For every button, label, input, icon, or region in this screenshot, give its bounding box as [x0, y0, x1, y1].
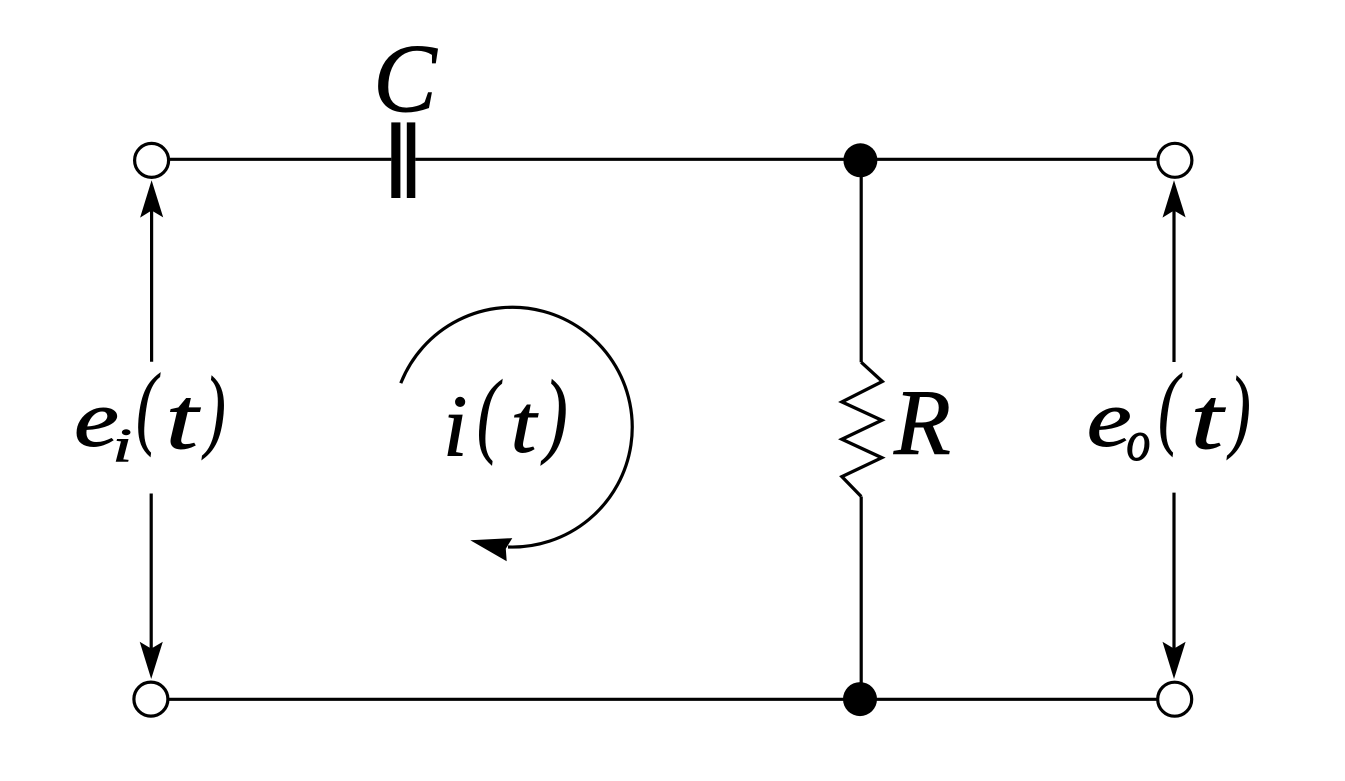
label e_i(t): [74, 357, 226, 472]
svg-text:t: t: [1191, 370, 1226, 467]
resistor R: [842, 362, 882, 496]
wire node A to resistor R: [860, 170, 863, 362]
svg-text:R: R: [893, 372, 951, 475]
svg-text:o: o: [1126, 410, 1150, 472]
wire node B to bottom-right terminal: [860, 698, 1157, 701]
wire bottom-left terminal to node B: [169, 698, 861, 701]
label C: [373, 24, 437, 132]
svg-text:e: e: [1087, 375, 1132, 463]
svg-text:t: t: [511, 378, 539, 470]
arrow e_i down (left input voltage arrow, lower): [140, 494, 163, 680]
svg-text:): ): [541, 361, 568, 465]
loop current arc i(t): [401, 307, 632, 561]
label i(t): [443, 361, 568, 475]
label e_o(t): [1087, 357, 1251, 473]
wire resistor R to node B: [860, 497, 863, 691]
svg-text:i: i: [113, 419, 132, 472]
svg-text:): ): [1227, 359, 1251, 461]
svg-text:t: t: [166, 370, 201, 467]
terminal bottom-right (open circle): [1158, 682, 1192, 716]
wire top-left (input terminal to capacitor C): [169, 158, 391, 161]
capacitor C: [391, 122, 415, 198]
terminal top-right (open circle): [1158, 143, 1192, 177]
arrow e_i up (left input voltage arrow, upper): [140, 180, 163, 362]
svg-text:C: C: [373, 24, 437, 132]
terminal top-left (open circle): [135, 143, 169, 177]
node B (bottom junction dot): [843, 682, 877, 716]
svg-text:): ): [202, 359, 226, 461]
svg-text:i: i: [443, 379, 467, 476]
wire capacitor C to node A: [415, 158, 860, 161]
wire node A to output terminal top-right: [860, 158, 1157, 161]
node A (top junction dot): [843, 143, 877, 177]
terminal bottom-left (open circle): [134, 682, 168, 716]
arrow e_o down (right output voltage arrow, lower): [1163, 493, 1186, 679]
arrow e_o up (right output voltage arrow, upper): [1163, 180, 1186, 362]
label R: [893, 372, 951, 475]
